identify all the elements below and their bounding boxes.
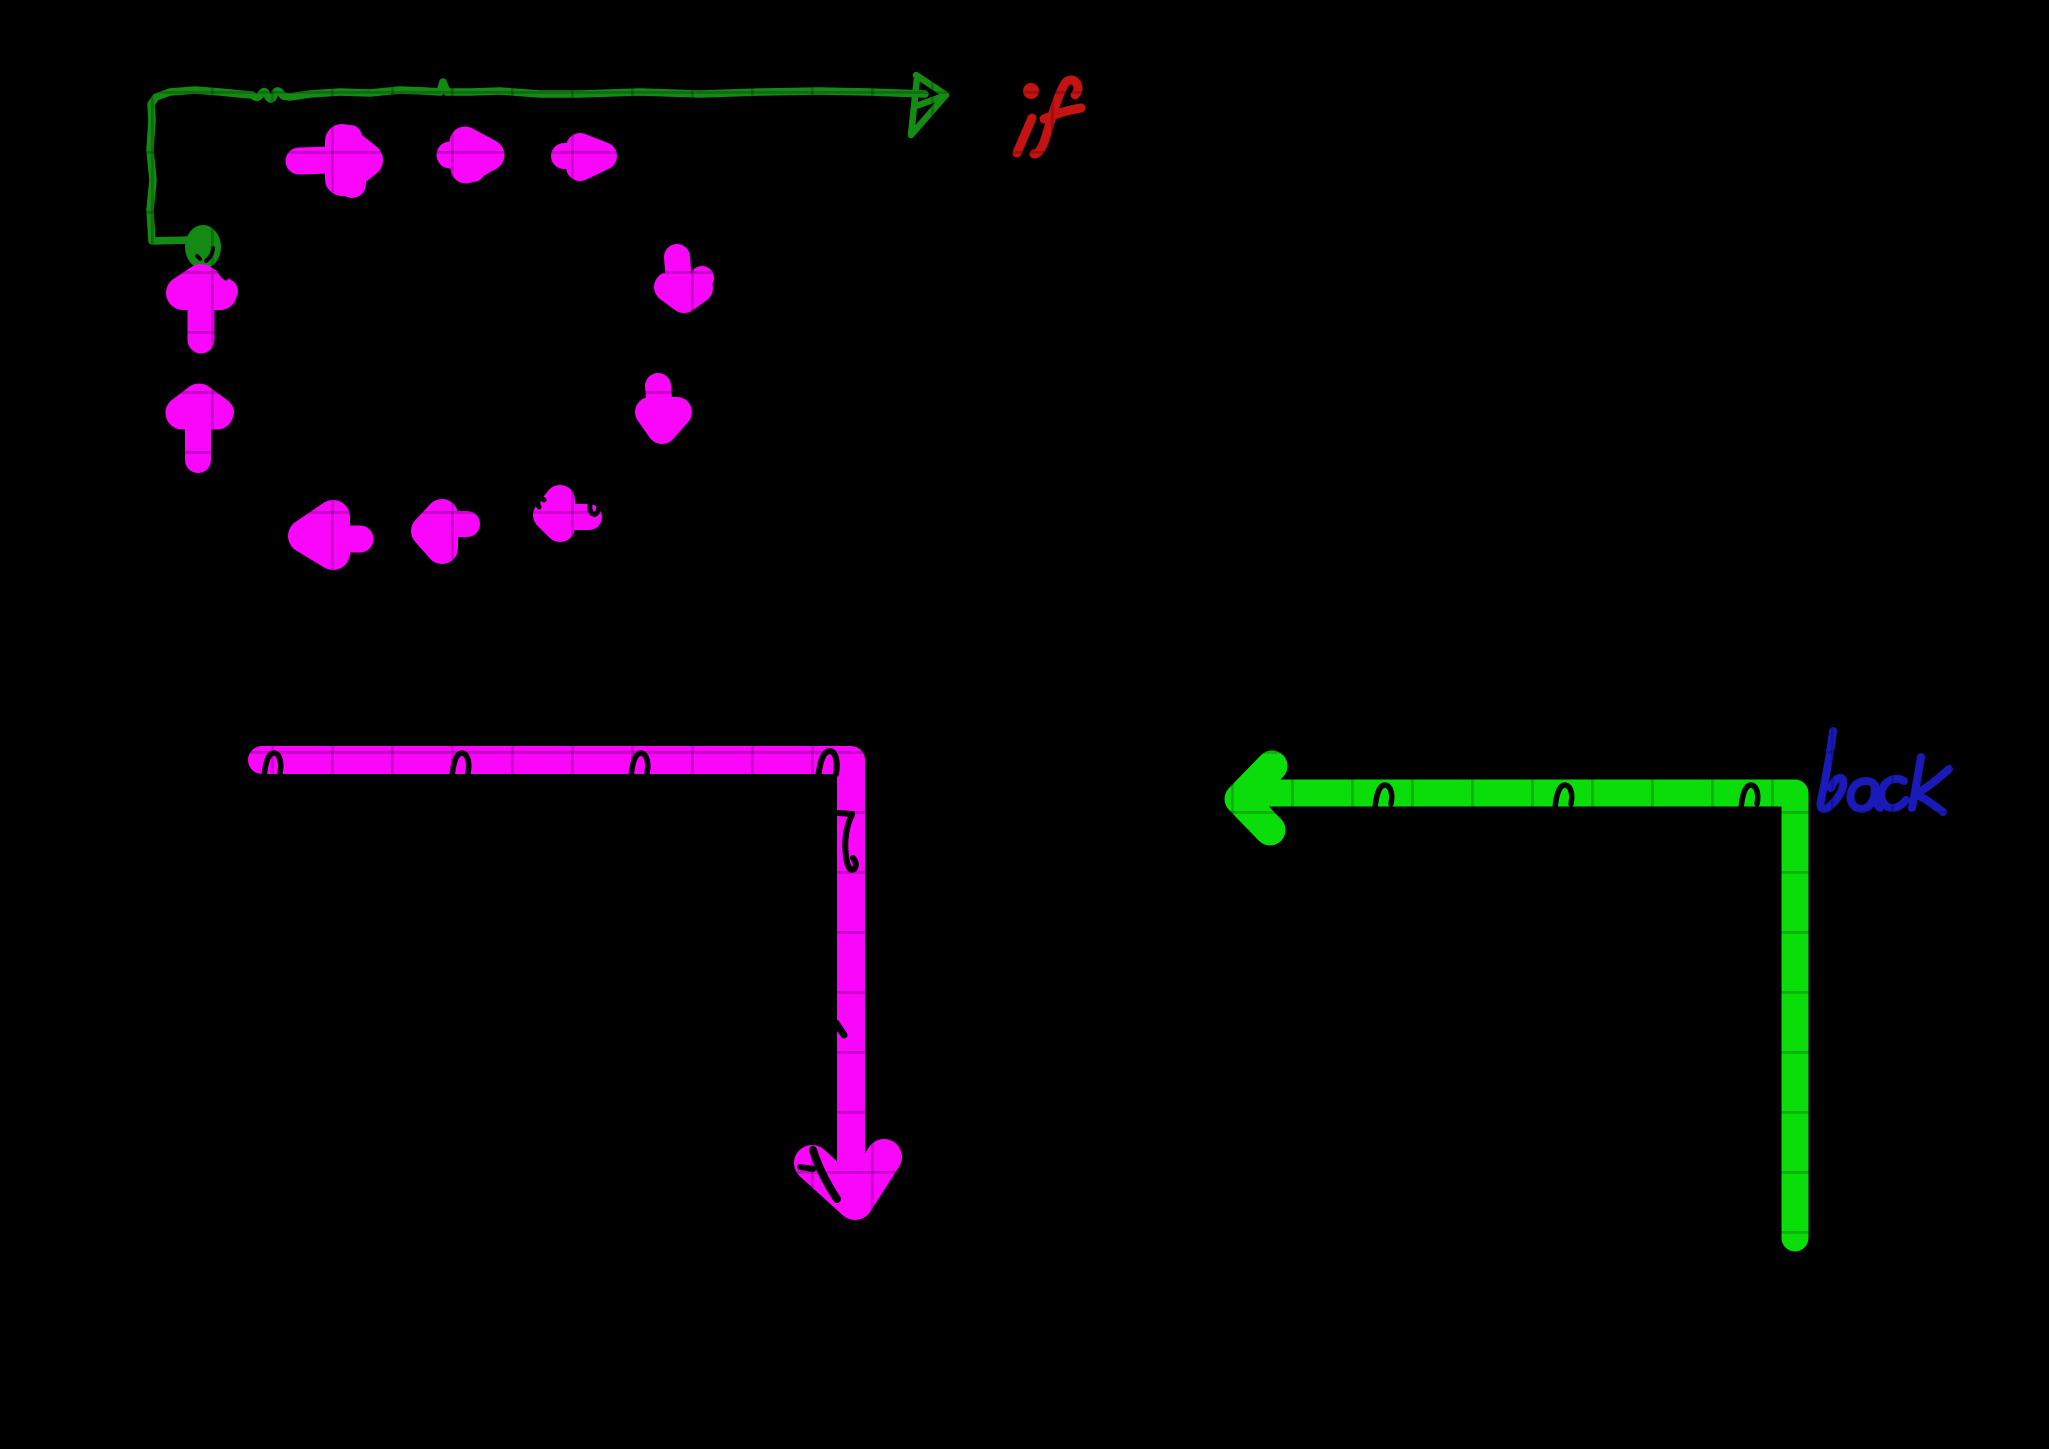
magenta loop arrow 2 (top-middle, points right)	[450, 142, 489, 182]
magenta L-arrow shaft	[262, 760, 851, 1185]
black ink small hook on magenta vertical bar	[836, 1023, 844, 1035]
magenta loop arrow 7 (bottom-middle, points left)	[427, 515, 467, 548]
magenta loop arrow 3 (top-right, points right)	[564, 147, 603, 167]
magenta loop arrow 8 (bottom-left, points left)	[305, 517, 360, 553]
green flow polyline (thin, wiggly)	[150, 82, 925, 241]
blue handwritten "back"	[1820, 731, 1949, 812]
green start dot	[185, 225, 221, 269]
magenta loop arrow 5 (right-bottom, points down)	[650, 386, 677, 429]
black ink hook 4 + J on magenta corner	[818, 751, 856, 870]
magenta loop arrow 1 (top-left, points right)	[299, 125, 366, 198]
red handwritten "if"	[1017, 80, 1081, 154]
magenta loop arrow 10 (left-top, points up)	[183, 279, 238, 340]
black ink hook 2 on green bar	[1555, 785, 1572, 809]
black ink marks inside green dot	[197, 248, 213, 261]
black ink speck on loop arrow 10	[218, 268, 226, 278]
black ink hook 1 on magenta bar	[264, 753, 281, 778]
black ink hook 3 on magenta bar	[631, 753, 648, 778]
black ink hook 1 on green bar	[1375, 785, 1392, 809]
green thick arrow head (chevron left)	[1240, 766, 1272, 830]
green thick L-arrow shaft	[1268, 793, 1795, 1238]
black ink hook 3 on green bar	[1741, 785, 1758, 809]
black ink swoosh on magenta arrowhead	[800, 1150, 837, 1199]
black ink hook 2 on magenta bar	[452, 753, 469, 778]
magenta loop arrow 9 (left-bottom, points up)	[182, 400, 234, 460]
magenta loop arrow 6 (bottom-right, points left)	[548, 500, 589, 527]
black ink curl on loop arrow 6	[538, 499, 599, 515]
green arrowhead (open, hand-drawn)	[911, 75, 946, 135]
magenta loop arrow 4 (right-top, points down)	[669, 257, 714, 298]
magenta L-arrow head (chevron down)	[812, 1157, 884, 1202]
